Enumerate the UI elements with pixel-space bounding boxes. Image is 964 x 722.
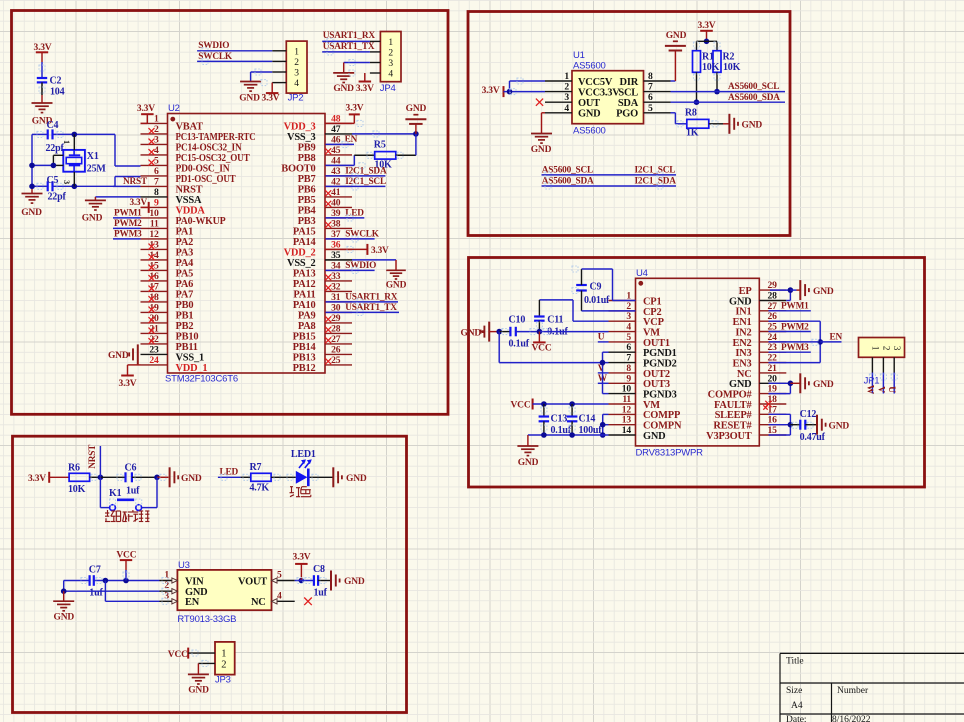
svg-text:0.01uf: 0.01uf [584,295,610,306]
svg-text:PB10: PB10 [176,331,199,342]
svg-text:PA9: PA9 [298,310,316,321]
svg-text:3.3V: 3.3V [482,86,500,96]
svg-text:PA11: PA11 [293,289,315,300]
svg-text:PB7: PB7 [298,174,316,185]
svg-text:NRST: NRST [176,184,203,195]
svg-text:100uf: 100uf [579,425,603,436]
svg-text:PB14: PB14 [293,342,316,353]
svg-text:PB12: PB12 [293,363,316,374]
svg-text:PWM2: PWM2 [114,219,142,229]
svg-text:10K: 10K [702,62,720,73]
svg-text:10: 10 [149,208,159,219]
svg-text:PA5: PA5 [176,268,194,279]
svg-text:1: 1 [62,140,71,144]
svg-text:11: 11 [150,218,159,229]
svg-text:C8: C8 [313,564,325,575]
svg-text:I2C1_SCL: I2C1_SCL [635,166,676,176]
svg-text:3: 3 [892,346,902,351]
svg-text:LED: LED [345,209,364,219]
svg-text:BOOT0: BOOT0 [281,163,315,174]
svg-text:11: 11 [622,394,631,405]
svg-text:Size: Size [786,686,802,696]
svg-text:PB6: PB6 [298,184,316,195]
svg-text:PC15-OSC32_OUT: PC15-OSC32_OUT [176,153,250,164]
svg-text:3.3V: 3.3V [28,474,46,484]
svg-text:6: 6 [626,342,631,353]
svg-text:33: 33 [331,271,341,282]
svg-text:3.3V: 3.3V [371,246,389,256]
svg-text:3: 3 [62,180,71,184]
svg-text:VM: VM [643,327,660,338]
svg-text:JP2: JP2 [288,93,304,104]
svg-text:C14: C14 [579,413,596,424]
svg-text:7: 7 [648,82,653,93]
svg-text:GND: GND [239,94,260,104]
svg-text:COMPO#: COMPO# [708,390,753,401]
svg-text:VOUT: VOUT [238,576,267,587]
svg-text:5: 5 [648,103,653,114]
svg-text:9: 9 [154,197,159,208]
svg-text:3: 3 [154,134,159,145]
svg-text:VCC: VCC [116,550,136,560]
svg-text:GND: GND [181,474,202,484]
svg-text:VSS_1: VSS_1 [176,352,204,363]
svg-text:PB9: PB9 [298,142,316,153]
svg-text:NC: NC [251,597,266,608]
svg-text:AS5600: AS5600 [573,126,606,137]
svg-text:VSSA: VSSA [176,195,202,206]
svg-text:C9: C9 [590,281,602,292]
svg-text:U4: U4 [636,268,648,279]
svg-text:C4: C4 [47,120,59,131]
svg-text:14: 14 [622,425,632,436]
svg-text:A4: A4 [791,701,803,711]
svg-text:VSS_3: VSS_3 [287,132,315,143]
svg-text:I2C1_SCL: I2C1_SCL [345,177,386,187]
svg-text:U2: U2 [168,103,180,114]
svg-text:R5: R5 [374,140,386,151]
svg-text:24: 24 [149,355,159,366]
svg-text:PC13-TAMPER-RTC: PC13-TAMPER-RTC [176,132,256,143]
svg-text:Title: Title [786,656,804,666]
svg-text:GND: GND [578,109,601,120]
svg-text:41: 41 [331,187,341,198]
svg-text:V3P3OUT: V3P3OUT [706,431,752,442]
svg-text:EN: EN [830,332,843,342]
svg-text:2: 2 [154,124,159,135]
svg-text:10K: 10K [723,62,741,73]
svg-text:1K: 1K [686,127,699,138]
svg-text:VSS_2: VSS_2 [287,258,315,269]
svg-text:PB0: PB0 [176,300,194,311]
svg-text:SCL: SCL [618,88,638,99]
svg-text:PB1: PB1 [176,310,194,321]
svg-text:C6: C6 [125,462,137,473]
svg-text:22pf: 22pf [46,143,65,154]
svg-text:NRST: NRST [88,444,98,469]
svg-text:SDA: SDA [618,98,639,109]
svg-text:7: 7 [154,176,159,187]
svg-text:VCC: VCC [168,650,188,660]
svg-text:0.1uf: 0.1uf [509,338,530,349]
svg-text:45: 45 [331,145,341,156]
svg-text:28: 28 [331,323,341,334]
svg-text:PA6: PA6 [176,279,194,290]
svg-text:2: 2 [221,659,226,670]
svg-text:27: 27 [331,334,341,345]
svg-text:3: 3 [164,590,169,601]
svg-text:USART1_TX: USART1_TX [323,42,375,52]
svg-text:X1: X1 [87,151,99,162]
svg-text:1: 1 [564,71,569,82]
svg-text:PB13: PB13 [293,352,316,363]
svg-text:PA0-WKUP: PA0-WKUP [176,216,227,227]
svg-text:PWM2: PWM2 [781,322,809,332]
svg-text:SWCLK: SWCLK [345,230,380,240]
svg-text:2: 2 [294,58,299,68]
svg-text:40: 40 [331,197,341,208]
svg-text:PB3: PB3 [298,216,316,227]
svg-text:3.3V: 3.3V [293,553,311,563]
svg-text:AS5600: AS5600 [573,61,606,72]
svg-text:JP1: JP1 [864,376,880,387]
svg-text:3.3V: 3.3V [356,84,374,94]
svg-text:25M: 25M [87,164,107,175]
svg-text:6: 6 [154,166,159,177]
svg-text:3.3V: 3.3V [698,21,716,31]
svg-text:22pf: 22pf [48,192,67,203]
svg-text:4: 4 [154,145,159,156]
svg-text:PGND3: PGND3 [643,390,677,401]
svg-text:U: U [886,386,896,393]
svg-text:R8: R8 [685,107,697,118]
svg-text:VBAT: VBAT [176,121,204,132]
svg-text:GND: GND [813,287,834,297]
svg-text:GND: GND [344,577,365,587]
svg-text:8: 8 [626,363,631,374]
svg-text:1: 1 [294,47,299,57]
svg-text:C11: C11 [547,314,563,325]
svg-text:I2C1_SDA: I2C1_SDA [635,177,677,187]
svg-text:U3: U3 [178,560,190,571]
svg-text:2: 2 [881,346,891,350]
svg-text:4: 4 [388,70,393,80]
svg-text:LED1: LED1 [291,449,316,460]
svg-text:U1: U1 [573,50,585,61]
svg-text:3: 3 [294,69,299,79]
svg-text:21: 21 [768,363,778,374]
svg-text:4: 4 [294,79,299,89]
svg-text:23: 23 [149,344,159,355]
svg-text:2: 2 [564,82,569,93]
svg-text:PA12: PA12 [293,279,316,290]
svg-text:GND: GND [188,686,209,696]
svg-text:V: V [875,386,885,393]
svg-text:3: 3 [564,92,569,103]
svg-text:EN: EN [345,135,358,145]
svg-text:26: 26 [331,344,341,355]
svg-text:IN3: IN3 [735,348,751,359]
svg-text:AS5600_SCL: AS5600_SCL [542,166,593,176]
svg-text:PA7: PA7 [176,289,194,300]
svg-text:PA3: PA3 [176,247,194,258]
svg-text:3.3V: 3.3V [119,379,137,389]
svg-text:GND: GND [386,281,407,291]
svg-text:VCC: VCC [511,401,531,411]
svg-text:JP3: JP3 [215,675,231,686]
svg-text:SWDIO: SWDIO [345,261,376,271]
svg-text:PGND1: PGND1 [643,348,677,359]
svg-text:3.3V: 3.3V [346,104,364,114]
svg-text:12: 12 [149,229,159,240]
svg-text:PA10: PA10 [293,300,316,311]
svg-text:1: 1 [221,648,226,659]
svg-text:R6: R6 [68,462,80,473]
svg-text:GND: GND [21,208,42,218]
svg-text:32: 32 [331,281,341,292]
svg-text:3.3V: 3.3V [137,104,155,114]
svg-text:Number: Number [837,686,869,696]
svg-text:GND: GND [406,104,427,114]
svg-text:USART1_RX: USART1_RX [323,31,376,41]
svg-text:EP: EP [739,286,753,297]
svg-text:25: 25 [331,355,341,366]
svg-text:NRST: NRST [123,177,148,187]
svg-text:PWM1: PWM1 [781,302,809,312]
svg-text:3.3V: 3.3V [129,198,147,208]
svg-text:10: 10 [622,384,632,395]
svg-text:1uf: 1uf [314,587,328,598]
svg-text:AS5600_SCL: AS5600_SCL [728,82,779,92]
svg-text:EN: EN [185,597,200,608]
svg-text:RT9013-33GB: RT9013-33GB [177,614,236,625]
svg-text:CP1: CP1 [643,296,661,307]
svg-text:PB4: PB4 [298,205,316,216]
svg-text:3.3V: 3.3V [262,94,280,104]
svg-text:1: 1 [154,113,159,124]
svg-text:1: 1 [388,38,393,48]
svg-text:K1: K1 [109,488,122,499]
svg-text:DRV8313PWPR: DRV8313PWPR [636,448,704,459]
svg-text:IN2: IN2 [735,327,751,338]
svg-text:8: 8 [154,187,159,198]
svg-text:29: 29 [331,313,341,324]
svg-text:8: 8 [648,71,653,82]
svg-text:GND: GND [108,351,129,361]
svg-text:PC14-OSC32_IN: PC14-OSC32_IN [176,142,243,153]
svg-text:C10: C10 [509,314,526,325]
svg-text:AS5600_SDA: AS5600_SDA [728,93,780,103]
svg-text:SWDIO: SWDIO [198,41,229,51]
svg-text:PWM3: PWM3 [781,343,809,353]
svg-text:4: 4 [564,103,569,114]
svg-text:R7: R7 [250,462,262,473]
svg-text:1: 1 [164,570,169,581]
svg-text:OUT2: OUT2 [643,369,670,380]
svg-text:PB5: PB5 [298,195,316,206]
svg-text:1: 1 [870,346,880,350]
svg-text:PA15: PA15 [293,226,316,237]
svg-text:PB15: PB15 [293,331,316,342]
svg-text:4: 4 [277,590,282,601]
svg-text:8/16/2022: 8/16/2022 [832,715,871,722]
svg-text:OUT: OUT [578,98,600,109]
svg-text:GND: GND [531,145,552,155]
svg-text:VDD_2: VDD_2 [284,247,316,258]
svg-text:6: 6 [648,92,653,103]
svg-text:PA13: PA13 [293,268,316,279]
svg-text:PD1-OSC_OUT: PD1-OSC_OUT [176,174,236,185]
svg-text:USART1_RX: USART1_RX [345,293,398,303]
svg-text:C13: C13 [551,413,568,424]
svg-text:PWM1: PWM1 [114,209,142,219]
svg-text:VIN: VIN [185,576,204,587]
svg-text:DIR: DIR [620,77,639,88]
svg-text:GND: GND [829,422,850,432]
svg-text:VCC5V: VCC5V [578,77,613,88]
svg-text:GND: GND [333,84,354,94]
svg-text:PA4: PA4 [176,258,194,269]
svg-text:GND: GND [643,431,666,442]
svg-text:PA8: PA8 [298,321,316,332]
svg-text:GND: GND [461,328,482,338]
svg-text:PWM3: PWM3 [114,230,142,240]
svg-text:IN1: IN1 [735,307,751,318]
svg-text:2: 2 [388,48,393,58]
svg-text:VDDA: VDDA [176,205,206,216]
svg-text:PA1: PA1 [176,226,194,237]
svg-text:PB8: PB8 [298,153,316,164]
svg-text:PB11: PB11 [176,342,198,353]
svg-text:104: 104 [50,87,65,98]
svg-text:C12: C12 [800,409,817,420]
svg-text:3: 3 [388,59,393,69]
svg-text:VDD_1: VDD_1 [176,363,208,374]
svg-text:38: 38 [331,218,341,229]
svg-text:GND: GND [82,213,103,223]
svg-text:5: 5 [277,570,282,581]
svg-text:LED: LED [220,468,239,478]
svg-text:STM32F103C6T6: STM32F103C6T6 [165,374,238,385]
svg-text:GND: GND [346,474,367,484]
svg-text:COMPP: COMPP [643,410,681,421]
svg-text:PD0-OSC_IN: PD0-OSC_IN [176,163,231,174]
svg-text:10K: 10K [68,484,86,495]
svg-text:5: 5 [154,155,159,166]
svg-text:GND: GND [666,31,687,41]
svg-text:GND: GND [742,121,763,131]
svg-text:VCC3.3V: VCC3.3V [578,88,620,99]
svg-text:PGO: PGO [616,109,638,120]
svg-text:1uf: 1uf [126,486,140,497]
svg-text:U: U [598,333,605,343]
svg-text:3: 3 [626,311,631,322]
svg-text:C2: C2 [50,76,62,87]
svg-text:PB2: PB2 [176,321,194,332]
svg-text:PA14: PA14 [293,237,316,248]
svg-text:NC: NC [737,369,752,380]
svg-text:VCC: VCC [532,343,552,353]
svg-text:USART1_TX: USART1_TX [345,303,397,313]
svg-text:4.7K: 4.7K [250,482,270,493]
svg-text:V: V [598,364,605,374]
svg-text:GND: GND [54,613,75,623]
svg-text:GND: GND [518,458,539,468]
svg-text:PA2: PA2 [176,237,194,248]
svg-text:Date:: Date: [786,715,807,722]
svg-text:GND: GND [813,380,834,390]
svg-text:SLEEP#: SLEEP# [715,410,753,421]
svg-text:1uf: 1uf [89,587,103,598]
svg-text:VDD_3: VDD_3 [284,121,316,132]
svg-text:JP4: JP4 [380,83,396,94]
svg-text:0.47uf: 0.47uf [800,432,826,443]
svg-text:47: 47 [331,124,341,135]
svg-text:C7: C7 [89,564,101,575]
